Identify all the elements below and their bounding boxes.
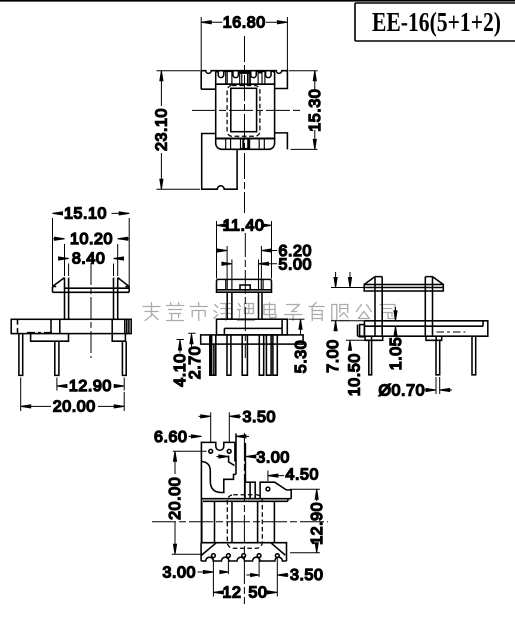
svg-text:4.50: 4.50: [286, 466, 320, 483]
svg-text:7.00: 7.00: [325, 339, 342, 373]
svg-text:5.30: 5.30: [293, 340, 310, 374]
svg-text:6.60: 6.60: [154, 429, 188, 446]
svg-text:50: 50: [249, 585, 268, 602]
svg-text:15.10: 15.10: [64, 206, 107, 223]
svg-text:12.90: 12.90: [69, 378, 112, 395]
svg-text:3.50: 3.50: [290, 567, 324, 584]
svg-text:5.00: 5.00: [279, 256, 313, 273]
svg-text:10.20: 10.20: [70, 231, 113, 248]
svg-text:11.40: 11.40: [223, 218, 265, 235]
svg-text:15.30: 15.30: [307, 89, 324, 132]
svg-text:3.00: 3.00: [256, 449, 290, 466]
svg-text:Ø0.70: Ø0.70: [379, 383, 426, 400]
svg-text:12: 12: [223, 585, 242, 602]
svg-text:3.50: 3.50: [243, 409, 277, 426]
svg-text:20.00: 20.00: [53, 399, 96, 416]
svg-text:1.05: 1.05: [388, 337, 405, 371]
svg-text:16.80: 16.80: [223, 15, 266, 32]
svg-text:EE-16(5+1+2): EE-16(5+1+2): [372, 7, 501, 37]
svg-text:3.00: 3.00: [162, 565, 196, 582]
svg-text:12.90: 12.90: [309, 502, 326, 545]
svg-text:23.10: 23.10: [154, 108, 171, 151]
svg-text:8.40: 8.40: [72, 251, 106, 268]
svg-text:2.70: 2.70: [187, 346, 204, 380]
svg-text:10.50: 10.50: [346, 353, 363, 396]
svg-text:20.00: 20.00: [167, 477, 184, 520]
